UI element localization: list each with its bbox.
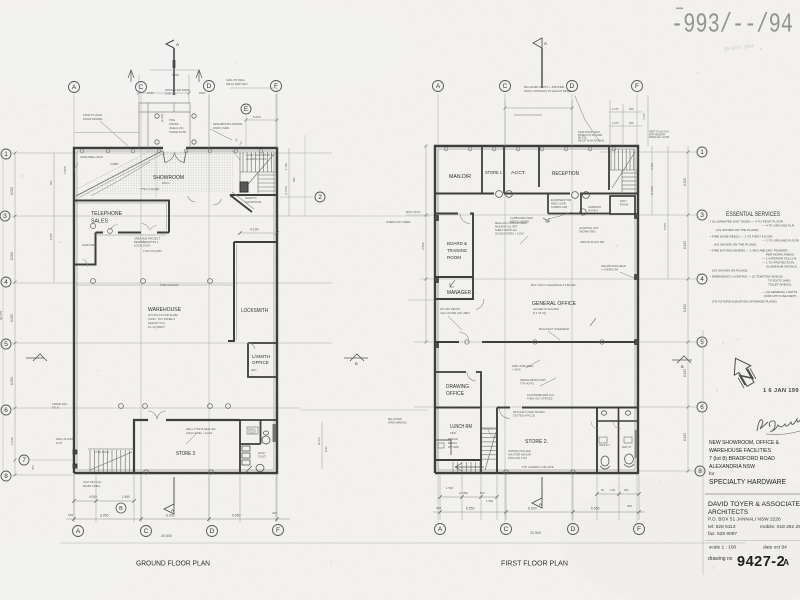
row4 column circles	[91, 279, 96, 284]
row5 wall column circles	[465, 340, 469, 344]
title block divider 2	[705, 540, 800, 542]
showroom ramp diagonal lines	[76, 151, 162, 196]
dim 4.100 below stair	[240, 232, 277, 234]
gap row 3 extension	[358, 215, 430, 217]
row6 wall lunch store2	[435, 407, 638, 409]
store2 door arc	[499, 409, 510, 419]
left plan leader lines	[74, 121, 240, 444]
door number circles	[90, 223, 95, 228]
right plan vertical grid lines	[438, 94, 637, 522]
gap row 2 bubble	[315, 192, 325, 202]
section marker B right of left plan	[344, 354, 368, 361]
right plan top dimension annotations	[505, 95, 648, 146]
store2 stair door arc	[488, 429, 497, 437]
section marker B right of right plan	[672, 356, 692, 363]
right plan tiny annotations	[406, 131, 669, 470]
right toilet wall pier	[635, 430, 639, 458]
right plan top row partition walls	[482, 146, 609, 194]
showroom south door arcs	[188, 196, 197, 202]
left plan circled B marker	[116, 503, 126, 513]
door jambs on left wall near stair	[73, 450, 77, 454]
right plan bottom wall column circles	[504, 470, 508, 474]
corridor wall under top row	[435, 192, 638, 194]
left plan dim tier 2	[66, 518, 290, 520]
left plan top dimension annotation lines	[139, 70, 277, 148]
section marker A bottom left plan	[173, 477, 175, 504]
right plan dim tier 2	[433, 511, 645, 513]
right plan leader lines	[448, 96, 634, 386]
right plan left dim line	[425, 146, 427, 342]
left plan dim tier 1	[74, 500, 134, 502]
right plan horizontal grid lines	[406, 152, 697, 471]
section marker A top right plan	[541, 48, 543, 88]
mezzanine line row4	[74, 284, 234, 286]
locksmith office door arc	[248, 343, 255, 349]
left plan bottom grid bubbles A C D F	[73, 526, 84, 537]
north arrow	[727, 354, 758, 389]
bottom scan fold line	[60, 542, 745, 544]
right plan toilets walls	[597, 408, 638, 474]
left plan right-side stair dims	[288, 148, 290, 216]
right plan top wall column circles	[444, 147, 448, 151]
right plan stair dim cluster	[440, 496, 497, 498]
left plan tiny annotations	[52, 73, 272, 488]
equipment room cluster walls	[548, 194, 635, 215]
left plan row bubbles 1 3 4 5 6 7 8	[1, 149, 11, 159]
left plan bottom extension lines	[74, 475, 277, 522]
lunch room bottom wall	[435, 459, 481, 461]
row5 wall general office south	[435, 341, 638, 343]
telephone sales inner face	[74, 203, 167, 235]
row6 column circles	[119, 404, 124, 409]
drawing office walls	[435, 372, 481, 473]
drawing office door arc	[467, 372, 476, 381]
section marker A top left plan	[173, 48, 175, 95]
top wall column circles	[80, 149, 84, 153]
locksmith office walls	[248, 343, 277, 377]
right plan arrow into plan row5	[514, 114, 542, 116]
telephone sales room walls	[74, 201, 169, 265]
wall below stair	[230, 194, 277, 196]
bottom-left stair store3	[88, 449, 134, 472]
stair dark newel	[240, 182, 248, 192]
small arrow markers above left plan	[128, 70, 134, 82]
section marker A bottom right plan	[541, 477, 543, 498]
lunch room stair L-shape	[453, 428, 496, 472]
showroom interior light line	[155, 152, 157, 198]
left plan toilet block walls	[240, 420, 277, 473]
toilet fixtures left plan	[242, 427, 270, 474]
dark stub above entry	[173, 60, 176, 68]
title block divider	[705, 493, 800, 495]
left plan left dimension lines	[14, 153, 16, 475]
right plan bottom extension lines	[440, 475, 639, 520]
store2 walls	[497, 408, 597, 474]
splayed showroom wall	[230, 195, 252, 212]
left plan outer walls	[74, 148, 277, 473]
left plan entry vestibule	[139, 103, 190, 148]
left plan horizontal grid lines	[12, 153, 358, 475]
telephone sales door arcs	[111, 225, 118, 230]
toilet door arcs	[591, 422, 599, 429]
small circle FD	[580, 209, 586, 215]
toilet fixtures right plan	[599, 411, 634, 469]
wall jamb marks right plan	[435, 216, 439, 221]
scan noise overlay	[0, 0, 1, 1]
section marker B left side	[26, 354, 47, 361]
store 3 walls	[134, 420, 240, 473]
row5 door arc	[459, 332, 469, 342]
door hinge circles corridor	[496, 191, 503, 198]
entry double door arcs	[165, 153, 175, 163]
right plan row bubbles 1 3 4 5 6 8	[697, 147, 707, 157]
right plan outer walls	[435, 146, 638, 473]
small arrow marks general office	[543, 218, 549, 222]
gap vertical dim near right plan bottom	[321, 422, 323, 469]
left plan top grid bubbles A C D F E	[69, 82, 80, 93]
right plan top grid bubbles A C D F	[433, 81, 444, 92]
locksmith room walls	[228, 242, 277, 341]
essential services list	[710, 220, 800, 304]
left plan vertical grid lines	[74, 94, 276, 522]
left plan outer wall inner face lines	[77, 151, 274, 470]
left plan top-right stair	[240, 152, 277, 193]
right plan bottom grid bubbles A C D F	[435, 524, 446, 535]
vestibule column circles	[155, 114, 159, 118]
gap row 6 extension	[300, 409, 428, 411]
right plan right dimension lines	[651, 146, 653, 215]
gap left dim line stub	[304, 135, 306, 216]
right plan outer wall inner face	[438, 149, 635, 470]
stair up arrow	[455, 463, 484, 471]
bottom wall column circles	[144, 470, 148, 474]
manager door arc	[476, 299, 484, 310]
store 3 door arcs	[148, 411, 157, 419]
title block left border line	[702, 330, 704, 575]
board and training room walls	[435, 214, 473, 300]
left toilet wall pier	[273, 424, 277, 442]
right plan top-right stair	[609, 149, 638, 192]
board room door arc	[460, 214, 470, 224]
gap short line row 4 right	[408, 299, 434, 301]
awning line left of vestibule	[74, 132, 139, 134]
lunch rm sink partition	[435, 440, 451, 455]
architect signature	[757, 417, 800, 432]
